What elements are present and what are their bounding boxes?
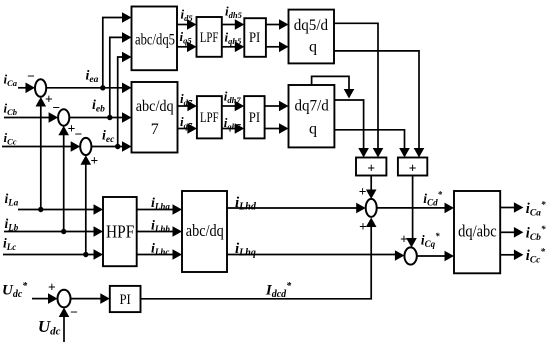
svg-text:−: − bbox=[70, 305, 78, 320]
svg-text:+: + bbox=[409, 161, 417, 176]
svg-text:LPF: LPF bbox=[200, 110, 219, 126]
svg-text:dq5/d: dq5/d bbox=[294, 17, 328, 34]
svg-text:+: + bbox=[367, 161, 375, 176]
svg-text:LPF: LPF bbox=[200, 30, 219, 46]
svg-text:+: + bbox=[90, 153, 98, 168]
svg-text:+: + bbox=[359, 184, 367, 199]
svg-text:PI: PI bbox=[249, 110, 260, 126]
svg-text:HPF: HPF bbox=[106, 222, 134, 242]
svg-text:PI: PI bbox=[119, 292, 130, 308]
svg-text:+: + bbox=[359, 219, 367, 234]
svg-text:PI: PI bbox=[249, 30, 260, 46]
svg-text:abc/dq: abc/dq bbox=[136, 98, 174, 115]
svg-text:abc/dq: abc/dq bbox=[186, 221, 224, 240]
svg-text:dq/abc: dq/abc bbox=[458, 221, 497, 240]
svg-text:−: − bbox=[52, 100, 60, 115]
svg-text:7: 7 bbox=[151, 121, 159, 138]
svg-text:dq7/d: dq7/d bbox=[294, 98, 328, 115]
svg-text:q: q bbox=[309, 121, 317, 138]
svg-text:+: + bbox=[400, 232, 408, 247]
svg-text:+: + bbox=[48, 279, 56, 294]
svg-text:−: − bbox=[74, 127, 82, 142]
svg-text:abc/dq5: abc/dq5 bbox=[135, 32, 175, 49]
svg-text:−: − bbox=[27, 69, 35, 84]
svg-text:q: q bbox=[309, 39, 317, 56]
